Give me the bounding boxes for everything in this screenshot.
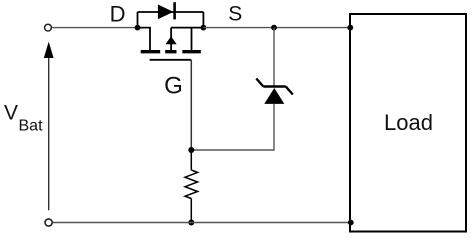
body vertical with arrow: [170, 28, 172, 51]
svg-text:D: D: [110, 1, 126, 26]
body arrow: [166, 36, 177, 44]
wire zener upper: [273, 28, 275, 86]
wire zener lower to gate junction: [191, 104, 274, 150]
svg-text:V: V: [4, 101, 18, 124]
wire top rail left (terminal to drain node): [52, 27, 138, 29]
node gate junction: [188, 147, 194, 153]
node S junction: [201, 25, 207, 31]
node load top connection: [347, 25, 353, 31]
source-side vertical: [191, 28, 193, 51]
right contact bar: [182, 50, 201, 53]
zener diode Z1: [256, 79, 293, 104]
svg-text:G: G: [164, 72, 183, 99]
terminal top-left: [45, 24, 52, 31]
svg-text:Bat: Bat: [19, 118, 44, 135]
node bottom junction: [188, 220, 194, 226]
terminal bottom-left: [45, 219, 52, 226]
load box: [350, 14, 466, 232]
middle contact bar: [165, 50, 176, 53]
svg-text:Load: Load: [384, 110, 433, 135]
wire top rail right (S node to load): [203, 27, 350, 29]
V_Bat arrow annotation: [44, 42, 54, 211]
svg-text:S: S: [228, 3, 242, 26]
drain stub: [138, 28, 151, 51]
resistor R1: [185, 150, 198, 223]
body diode of MOSFET: [138, 2, 204, 27]
node load bottom connection: [348, 220, 354, 226]
node D junction: [135, 25, 141, 31]
gate electrode line: [150, 59, 192, 61]
wire bottom rail: [52, 222, 351, 224]
source top segment: [171, 27, 203, 29]
left contact bar: [141, 50, 161, 53]
wire gate down: [190, 60, 192, 150]
MOSFET Q1: [138, 28, 204, 60]
node zener tap: [271, 25, 277, 31]
